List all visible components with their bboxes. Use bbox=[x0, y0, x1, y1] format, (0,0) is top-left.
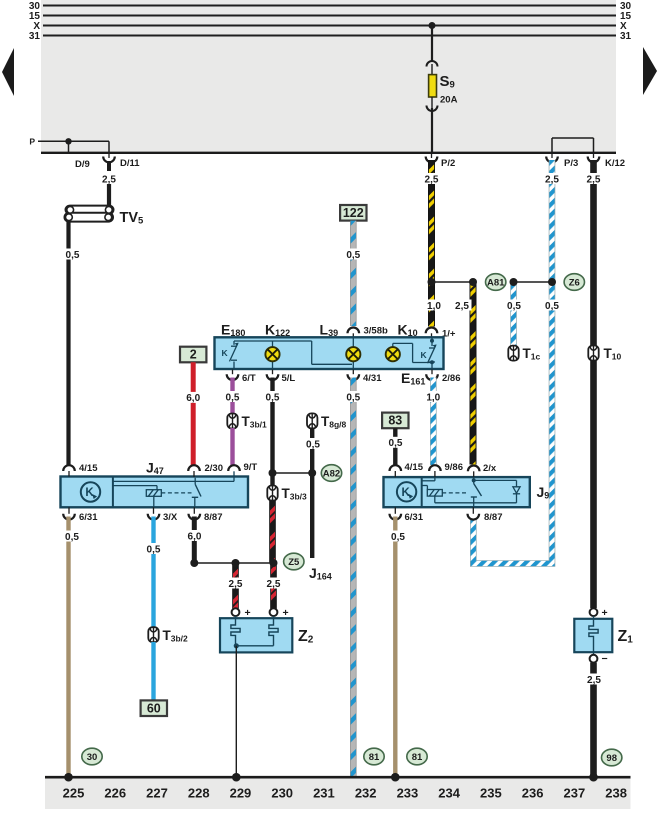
svg-text:81: 81 bbox=[412, 752, 423, 763]
J9 divider bbox=[421, 477, 423, 507]
wire 2/86 to 9/86 blue/white bbox=[430, 378, 437, 466]
svg-text:1,0: 1,0 bbox=[427, 301, 441, 312]
bus line 30 bbox=[43, 5, 616, 7]
svg-text:0,5: 0,5 bbox=[66, 250, 80, 261]
wire 6/T violet bbox=[230, 378, 234, 415]
svg-text:233: 233 bbox=[397, 786, 419, 801]
svg-text:4/31: 4/31 bbox=[363, 373, 382, 384]
svg-text:234: 234 bbox=[438, 786, 460, 801]
svg-text:0,5: 0,5 bbox=[346, 250, 360, 261]
junction Z6 pair bbox=[514, 281, 553, 283]
svg-text:3/58b: 3/58b bbox=[364, 326, 388, 337]
connector T3b/1 bbox=[227, 414, 237, 429]
switch E180 bbox=[222, 343, 239, 362]
svg-text:0,5: 0,5 bbox=[266, 392, 280, 403]
J9 diode branch bbox=[474, 479, 517, 481]
svg-text:229: 229 bbox=[230, 786, 252, 801]
svg-text:5/L: 5/L bbox=[282, 373, 296, 384]
svg-text:P/3: P/3 bbox=[564, 158, 578, 169]
connector T3b/2 bbox=[148, 627, 158, 642]
svg-text:2/30: 2/30 bbox=[205, 463, 224, 474]
svg-text:A82: A82 bbox=[323, 468, 340, 479]
wire Z1 to rail bbox=[590, 663, 597, 776]
svg-text:0,5: 0,5 bbox=[306, 439, 320, 450]
wire 5/L black bbox=[270, 378, 274, 487]
bus line 31 bbox=[43, 35, 616, 37]
J47 switch contact bbox=[194, 478, 196, 485]
J9 relay coil bbox=[427, 490, 442, 497]
connector T3b/3 bbox=[267, 486, 277, 501]
wire to Z2 right red/black bbox=[270, 563, 277, 609]
connector K/12 bbox=[588, 157, 600, 163]
relay J47 bbox=[61, 477, 249, 508]
svg-text:228: 228 bbox=[188, 786, 210, 801]
wire 8/87 black 6.0 bbox=[192, 517, 197, 564]
svg-text:8/87: 8/87 bbox=[484, 512, 503, 523]
wire T3b/1 to 9/T violet bbox=[230, 428, 234, 465]
svg-text:D/11: D/11 bbox=[120, 158, 140, 169]
wire to Z2 left red/black bbox=[232, 563, 239, 609]
svg-text:81: 81 bbox=[369, 752, 380, 763]
svg-text:30: 30 bbox=[87, 752, 98, 763]
junction A81 pair bbox=[432, 281, 474, 283]
lamp K10 bbox=[386, 347, 400, 361]
svg-text:0,5: 0,5 bbox=[226, 392, 240, 403]
wire Z6 to J9 8/87 blue/white bbox=[543, 300, 562, 312]
wire 83 to 4/15 bbox=[393, 428, 397, 465]
svg-text:2,5: 2,5 bbox=[587, 675, 601, 686]
svg-text:235: 235 bbox=[480, 786, 502, 801]
connector T1c bbox=[508, 346, 518, 361]
svg-text:D/9: D/9 bbox=[75, 159, 90, 170]
svg-text:6/T: 6/T bbox=[242, 373, 256, 384]
J9 top pins bbox=[390, 465, 402, 471]
svg-text:31: 31 bbox=[29, 31, 41, 42]
svg-text:20A: 20A bbox=[440, 95, 458, 106]
J47 interior: coil feed bbox=[113, 485, 157, 487]
svg-text:2,5: 2,5 bbox=[229, 579, 243, 590]
J47 dashed link bbox=[161, 492, 191, 494]
svg-text:P: P bbox=[29, 137, 35, 147]
svg-text:+: + bbox=[245, 607, 251, 619]
svg-text:9/86: 9/86 bbox=[445, 462, 464, 473]
wire P horizontal bbox=[38, 140, 109, 142]
svg-text:2/86: 2/86 bbox=[442, 373, 461, 384]
connector T8g/8 bbox=[307, 413, 317, 428]
svg-text:8/87: 8/87 bbox=[204, 512, 223, 523]
wire 122 to 3/58b gray/blue bbox=[350, 221, 356, 326]
wire T3b/2 to 60 blue bbox=[151, 642, 155, 700]
junction A82 line bbox=[273, 472, 313, 474]
switch E161 bbox=[431, 338, 433, 346]
node 81 left bbox=[364, 748, 384, 765]
J47 top pins bbox=[63, 465, 75, 471]
svg-text:122: 122 bbox=[343, 206, 364, 220]
svg-text:−: − bbox=[602, 653, 608, 665]
svg-text:K: K bbox=[401, 487, 410, 499]
J9 bottom pins bbox=[394, 507, 396, 514]
svg-text:2,5: 2,5 bbox=[425, 174, 439, 185]
wire P/2 yellow/black bbox=[428, 160, 435, 282]
bus line 15 bbox=[43, 15, 616, 17]
wire Z2 to rail bbox=[235, 646, 237, 776]
wire P/3 blue/white loop to J9 8/87 bbox=[473, 160, 552, 564]
svg-text:1,0: 1,0 bbox=[426, 392, 440, 403]
svg-text:31: 31 bbox=[620, 31, 632, 42]
svg-text:0,5: 0,5 bbox=[147, 544, 161, 555]
bus line X bbox=[43, 25, 616, 27]
svg-text:0,5: 0,5 bbox=[346, 392, 360, 403]
code box 83 bbox=[382, 413, 408, 429]
svg-text:98: 98 bbox=[606, 753, 617, 764]
svg-text:232: 232 bbox=[355, 786, 377, 801]
svg-text:236: 236 bbox=[522, 786, 544, 801]
connector P/3 bbox=[546, 157, 558, 163]
control unit symbol K bbox=[81, 482, 100, 501]
lamp L39 bbox=[346, 347, 360, 361]
ground rail band bbox=[45, 778, 631, 809]
svg-text:0,5: 0,5 bbox=[65, 532, 79, 543]
node 30 bbox=[82, 748, 102, 765]
rail junction dots bbox=[64, 773, 73, 782]
wire to 1/+ bbox=[428, 282, 435, 327]
svg-text:231: 231 bbox=[313, 786, 335, 801]
svg-text:237: 237 bbox=[564, 786, 586, 801]
svg-text:2,5: 2,5 bbox=[545, 174, 559, 185]
wire TV5 to J47 pin 4/15 bbox=[66, 222, 70, 466]
svg-text:0,5: 0,5 bbox=[389, 438, 403, 449]
connector D/11 bbox=[103, 157, 115, 163]
J9 dashed link bbox=[442, 492, 468, 494]
svg-text:2: 2 bbox=[190, 348, 197, 362]
svg-text:Z5: Z5 bbox=[288, 557, 300, 568]
svg-text:6,0: 6,0 bbox=[186, 393, 200, 404]
node A82 bbox=[321, 465, 341, 482]
svg-text:227: 227 bbox=[146, 786, 168, 801]
J9 switch contact bbox=[473, 478, 475, 484]
svg-text:2,5: 2,5 bbox=[587, 174, 601, 185]
svg-text:0,5: 0,5 bbox=[507, 301, 521, 312]
lamp K122 bbox=[265, 347, 279, 361]
J9 interior coil feed bbox=[422, 485, 428, 487]
junction on bus X bbox=[429, 22, 436, 29]
wire 3/X blue bbox=[151, 517, 155, 629]
J47 bottom pins bbox=[68, 507, 70, 514]
node 81 right bbox=[407, 748, 427, 765]
svg-text:83: 83 bbox=[388, 414, 402, 428]
heater Z2 bbox=[220, 618, 292, 652]
interior wiring main box bbox=[234, 340, 312, 342]
wire to J9 2/x yellow/black bbox=[470, 282, 477, 465]
junction row Z5 bbox=[194, 562, 273, 564]
splice TV5 bbox=[66, 206, 114, 214]
svg-text:2/x: 2/x bbox=[483, 463, 497, 474]
svg-text:Z6: Z6 bbox=[569, 277, 580, 288]
J47 divider bbox=[112, 477, 114, 508]
svg-text:A81: A81 bbox=[487, 277, 505, 288]
J9 bottom link bbox=[435, 502, 517, 504]
svg-text:2,5: 2,5 bbox=[267, 579, 281, 590]
connector 1/+ bbox=[426, 327, 438, 333]
svg-text:230: 230 bbox=[271, 786, 293, 801]
svg-text:2,5: 2,5 bbox=[455, 301, 469, 312]
J9 interior: 9/86 feed bbox=[434, 478, 436, 481]
terminal + right bbox=[270, 608, 278, 616]
wire K/12 to T10 bbox=[590, 160, 597, 346]
svg-text:226: 226 bbox=[104, 786, 126, 801]
svg-text:3/X: 3/X bbox=[163, 512, 178, 523]
connector 3/58b bbox=[348, 327, 360, 333]
junction on P line bbox=[65, 138, 71, 144]
connector P/2 bbox=[426, 157, 438, 163]
wire 6/31 brown to rail bbox=[66, 517, 70, 777]
svg-text:6/31: 6/31 bbox=[79, 512, 98, 523]
junction dots overlay bbox=[428, 278, 436, 286]
svg-text:9/T: 9/T bbox=[244, 462, 258, 473]
wire fuse upper bbox=[431, 26, 433, 62]
wire 4/31 gray/blue down to rail bbox=[350, 378, 356, 777]
svg-text:4/15: 4/15 bbox=[405, 462, 424, 473]
wire fuse lower bbox=[431, 108, 433, 152]
wire D/11 to TV5 bbox=[107, 184, 111, 208]
J47 relay coil bbox=[146, 490, 161, 497]
wire T8g/8 down bbox=[310, 428, 314, 558]
svg-text:K/12: K/12 bbox=[605, 158, 625, 169]
code box 2 bbox=[180, 347, 206, 363]
svg-text:+: + bbox=[602, 607, 608, 619]
terminal - Z1 bbox=[590, 655, 598, 663]
terminal + left bbox=[232, 608, 240, 616]
svg-text:P/2: P/2 bbox=[441, 158, 455, 169]
main box bottom connectors bbox=[232, 370, 234, 375]
terminal + Z1 bbox=[590, 608, 598, 616]
wire J9 6/31 brown to rail bbox=[393, 517, 397, 777]
svg-text:60: 60 bbox=[147, 701, 161, 715]
node Z6 bbox=[564, 274, 584, 291]
svg-text:6/31: 6/31 bbox=[405, 512, 424, 523]
ground rail bbox=[45, 776, 631, 779]
svg-text:+: + bbox=[283, 607, 289, 619]
wire to T1c bbox=[510, 282, 517, 346]
svg-text:238: 238 bbox=[605, 786, 627, 801]
heater Z1 bbox=[574, 619, 612, 652]
svg-text:K: K bbox=[222, 348, 229, 358]
relay J9 bbox=[384, 477, 530, 507]
svg-text:0,5: 0,5 bbox=[545, 301, 559, 312]
wire D/9 stub bbox=[68, 141, 70, 154]
svg-text:K: K bbox=[85, 487, 94, 499]
svg-text:K: K bbox=[421, 350, 428, 360]
wire bridge P/3-K/12 bbox=[552, 137, 594, 139]
control module box E180/K122/L39/K10/E161 bbox=[215, 337, 444, 369]
node Z5 bbox=[284, 553, 304, 570]
svg-text:225: 225 bbox=[63, 786, 85, 801]
wire 2 to 2/30 red bbox=[191, 362, 196, 465]
svg-text:6,0: 6,0 bbox=[188, 531, 202, 542]
fuse S9 20A bbox=[427, 61, 438, 67]
wire D/11 stub bbox=[108, 141, 110, 153]
code box 60 bbox=[141, 700, 167, 716]
code box 122 bbox=[340, 205, 366, 221]
wire T3b/3 red/black bbox=[269, 501, 276, 564]
node A81 bbox=[486, 274, 506, 291]
wire T10 to Z1 bbox=[590, 360, 597, 608]
left page arrow bbox=[2, 48, 14, 96]
right page arrow bbox=[643, 47, 657, 95]
node 98 bbox=[602, 749, 622, 766]
top supply band bbox=[41, 0, 616, 152]
svg-text:4/15: 4/15 bbox=[79, 463, 98, 474]
svg-text:0,5: 0,5 bbox=[391, 532, 405, 543]
connector T10 bbox=[588, 346, 598, 361]
control unit symbol K (J9) bbox=[397, 482, 416, 501]
J47 interior: 9/T feed bbox=[233, 471, 235, 481]
svg-text:2,5: 2,5 bbox=[102, 174, 116, 185]
